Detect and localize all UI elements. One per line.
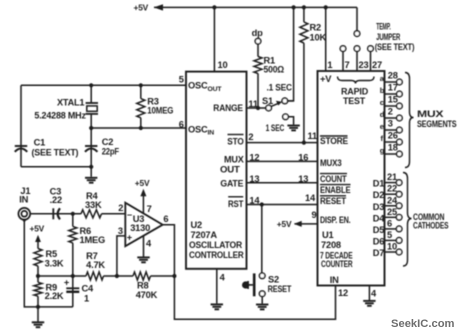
svg-text:SEGMENTS: SEGMENTS	[417, 119, 457, 129]
node dot R8/output	[172, 274, 176, 278]
svg-text:MUX3: MUX3	[320, 158, 342, 168]
svg-text:3: 3	[118, 226, 123, 236]
svg-text:21: 21	[387, 172, 397, 182]
wire jumper pin 27 lead	[370, 51, 372, 71]
wire op-amp pin3 jog	[117, 236, 125, 276]
wire U2 pin 10 drop	[213, 7, 215, 71]
node dot S2 on RST	[260, 202, 264, 206]
svg-text:1MEG: 1MEG	[80, 235, 106, 245]
capacitor C4	[66, 288, 79, 292]
IC U1 7208 box	[318, 71, 385, 286]
wire R5 to R9 junction	[37, 266, 39, 282]
wire R2 bottom lead to STO net	[303, 43, 305, 143]
common cathode pins D1-D7	[385, 183, 397, 252]
wire dp to R1	[257, 44, 259, 56]
wire .1SEC feed drop	[288, 7, 294, 101]
ground below R9	[32, 322, 44, 327]
svg-text:COUNT: COUNT	[320, 174, 347, 184]
wire +5V to DISP EN pin 9	[295, 223, 318, 225]
wire crystal bottom lead	[90, 114, 92, 128]
node dot .1SEC drop on rail	[292, 5, 296, 9]
svg-text:+V: +V	[320, 74, 332, 84]
svg-text:9: 9	[312, 210, 317, 220]
wire temp jumper drop	[356, 7, 358, 30]
wire GATE to COUNT ENABLE	[247, 182, 318, 184]
wire U2 pin 4 ground lead	[216, 269, 218, 304]
svg-text:S1: S1	[262, 96, 273, 106]
svg-text:SeekIC.com: SeekIC.com	[391, 318, 455, 330]
svg-text:RESET: RESET	[320, 196, 346, 206]
svg-text:7: 7	[345, 60, 350, 70]
resistor R6	[69, 226, 77, 243]
wire crystal top lead	[90, 85, 92, 102]
node dot R3 bottom	[139, 126, 143, 130]
svg-text:RANGE: RANGE	[213, 103, 243, 113]
svg-text:TEMP.: TEMP.	[376, 22, 391, 32]
wire op-amp pin4 ground lead	[143, 236, 145, 257]
svg-text:U2: U2	[191, 220, 203, 230]
op-amp U3	[125, 203, 162, 247]
svg-text:14: 14	[305, 193, 316, 203]
node dot R3 top	[139, 83, 143, 87]
svg-text:IN: IN	[19, 194, 28, 204]
svg-text:10: 10	[218, 60, 228, 70]
wire jumper pin 7 lead	[342, 51, 344, 71]
svg-text:D5: D5	[373, 225, 385, 235]
crystal XTAL1	[86, 103, 98, 114]
svg-text:e: e	[380, 122, 384, 131]
svg-text:2.2K: 2.2K	[45, 291, 64, 301]
node dot crystal bottom	[89, 126, 93, 130]
svg-text:+5V: +5V	[30, 223, 45, 233]
svg-text:5: 5	[179, 75, 184, 85]
brace mux segments	[405, 73, 414, 168]
capacitor C3	[53, 208, 60, 219]
svg-text:10MEG: 10MEG	[147, 106, 173, 116]
svg-text:+5V: +5V	[277, 219, 292, 229]
svg-text:C1: C1	[34, 138, 46, 148]
svg-text:12: 12	[249, 152, 259, 162]
svg-text:5.24288 MHz: 5.24288 MHz	[34, 111, 86, 121]
svg-text:(SEE TEXT): (SEE TEXT)	[375, 42, 415, 52]
svg-text:3.3K: 3.3K	[45, 258, 64, 268]
svg-text:STO: STO	[227, 137, 243, 147]
svg-text:MUX: MUX	[417, 109, 445, 119]
brace rapid test	[338, 77, 375, 84]
svg-text:XTAL1: XTAL1	[57, 98, 84, 108]
svg-text:d: d	[380, 110, 385, 119]
node dot crystal top	[89, 83, 93, 87]
ground below C2	[85, 178, 97, 183]
svg-text:JUMPER: JUMPER	[376, 32, 400, 42]
svg-text:28: 28	[388, 71, 398, 81]
svg-text:27: 27	[372, 60, 382, 70]
svg-text:CATHODES: CATHODES	[413, 221, 448, 231]
svg-text:(SEE TEXT): (SEE TEXT)	[32, 148, 79, 158]
node dot U2 pin10 on rail	[212, 5, 216, 9]
svg-text:dp: dp	[252, 28, 263, 38]
wire J1 shell ground run	[24, 220, 73, 307]
resistor R4	[81, 210, 102, 218]
wire R3 bottom lead	[140, 118, 142, 128]
wire R3 top lead	[140, 85, 142, 98]
svg-text:23: 23	[359, 60, 369, 70]
svg-text:6: 6	[179, 119, 184, 129]
node dot R2 on STO	[302, 141, 306, 145]
node dot C3/R4/R6 node A	[71, 212, 75, 216]
svg-text:4.7K: 4.7K	[86, 260, 105, 270]
wire ground stub below R9	[37, 307, 39, 322]
wire U1 pin 4 ground lead	[368, 286, 370, 301]
wire +5V top rail	[154, 6, 357, 8]
svg-text:22: 22	[387, 184, 397, 194]
svg-text:33K: 33K	[85, 200, 102, 210]
resistor R3	[137, 99, 145, 118]
wire R7 to R8 with pin3 node	[104, 275, 134, 277]
node dot U1 pin1 on rail	[324, 5, 328, 9]
svg-text:D7: D7	[373, 248, 385, 258]
svg-text:.22: .22	[50, 195, 62, 205]
resistor R1	[254, 57, 262, 74]
wire bottom of crystal section	[21, 166, 91, 168]
resistor R7	[86, 272, 104, 280]
svg-text:D4: D4	[373, 213, 386, 223]
pushbutton S2	[259, 273, 265, 279]
svg-text:b: b	[380, 86, 385, 95]
svg-text:D3: D3	[373, 202, 385, 212]
wire R9 bottom lead	[37, 296, 39, 307]
wire OSC IN net	[91, 127, 186, 129]
svg-text:R2: R2	[310, 22, 322, 32]
svg-text:12: 12	[338, 288, 348, 298]
brace common cathodes	[403, 173, 412, 267]
switch S1	[266, 105, 272, 111]
wire C2 top lead	[90, 128, 92, 167]
svg-text:6: 6	[163, 214, 168, 224]
wire +5V arrow to R5	[37, 241, 39, 249]
IC U2 7207A box	[186, 72, 247, 269]
svg-text:11: 11	[308, 131, 317, 141]
svg-text:7: 7	[147, 204, 152, 214]
svg-text:–: –	[127, 209, 132, 219]
wire U1 pin 1 drop	[325, 7, 327, 71]
svg-text:7208: 7208	[321, 240, 341, 250]
svg-text:18: 18	[388, 143, 398, 153]
svg-text:C2: C2	[102, 137, 114, 147]
svg-text:OSCILLATOR: OSCILLATOR	[189, 240, 242, 250]
svg-text:IN: IN	[330, 275, 339, 285]
svg-text:5: 5	[387, 230, 392, 240]
svg-text:24: 24	[387, 195, 398, 205]
ground below S2	[256, 305, 268, 310]
svg-text:16: 16	[298, 152, 308, 162]
wire S1 1SEC contact to ground	[288, 117, 293, 125]
svg-text:10: 10	[387, 242, 397, 252]
wire jumper pin 23 lead	[356, 51, 358, 71]
ground below U2 pin 4	[211, 304, 223, 309]
wire R8 to output node	[151, 275, 175, 277]
svg-text:CONTROLLER: CONTROLLER	[189, 250, 244, 260]
wire S2 to ground	[261, 297, 263, 304]
svg-text:OUT: OUT	[220, 165, 240, 175]
resistor R5	[34, 249, 42, 267]
svg-text:1: 1	[84, 293, 89, 303]
wire op-amp output	[163, 225, 336, 320]
svg-text:+: +	[64, 278, 70, 288]
capacitor C1	[15, 146, 27, 152]
svg-text:D6: D6	[373, 236, 385, 246]
ground at 1 SEC	[287, 126, 299, 131]
svg-text:D2: D2	[373, 190, 385, 200]
svg-text:DISP. EN.: DISP. EN.	[320, 215, 351, 225]
node dot R5/R9 junction	[36, 274, 40, 278]
svg-text:13: 13	[249, 174, 259, 184]
svg-text:17: 17	[388, 83, 398, 93]
svg-text:6: 6	[387, 218, 392, 228]
svg-text:RESET: RESET	[268, 284, 292, 294]
resistor R2	[300, 22, 308, 43]
svg-text:500Ω: 500Ω	[264, 64, 285, 74]
wire ground stub below C2	[90, 167, 92, 177]
svg-text:3130: 3130	[130, 223, 150, 233]
svg-text:7207A: 7207A	[191, 230, 218, 240]
mux segment pins a-g	[385, 82, 397, 154]
svg-text:+5V: +5V	[135, 178, 150, 188]
connector J1	[18, 208, 30, 220]
svg-text:1: 1	[327, 60, 332, 70]
svg-text:25: 25	[387, 207, 397, 217]
wire OSC OUT net top	[21, 84, 186, 86]
svg-text:10K: 10K	[310, 32, 327, 42]
svg-text:g: g	[380, 146, 385, 155]
node dot R6/C4 on bias net	[71, 274, 75, 278]
wire bias net horizontal	[38, 275, 86, 277]
resistor R8	[133, 272, 151, 280]
wire J1 to C3	[30, 213, 81, 215]
node dot C2 bottom	[89, 165, 93, 169]
svg-text:1 SEC: 1 SEC	[266, 123, 285, 133]
svg-text:COUNTER: COUNTER	[321, 259, 353, 269]
node dot R2 on rail	[302, 5, 306, 9]
svg-text:2: 2	[248, 132, 253, 142]
svg-text:470K: 470K	[136, 290, 158, 300]
svg-text:c: c	[380, 98, 384, 107]
wire left vertical C1 top lead	[20, 85, 22, 167]
svg-text:MUX: MUX	[224, 154, 245, 164]
svg-text:GATE: GATE	[220, 179, 243, 189]
svg-text:RST: RST	[228, 199, 244, 209]
wire C4 top lead	[72, 276, 74, 307]
svg-text:U1: U1	[322, 230, 334, 240]
wire RST to RESET	[247, 204, 318, 206]
svg-text:14: 14	[249, 196, 260, 206]
svg-text:ENABLE: ENABLE	[320, 185, 351, 195]
svg-text:+5V: +5V	[134, 3, 149, 13]
wire op-amp pin7 supply	[142, 195, 144, 213]
capacitor C2	[85, 146, 97, 152]
svg-text:D1: D1	[373, 179, 385, 189]
svg-text:22pF: 22pF	[102, 147, 120, 157]
wire RANGE pin 11 to S1 pole	[247, 107, 266, 109]
svg-text:2: 2	[388, 107, 393, 117]
svg-text:.1 SEC: .1 SEC	[267, 82, 293, 92]
wire node A to R6	[72, 214, 74, 227]
wire R2 top lead	[303, 7, 305, 22]
svg-text:+: +	[127, 233, 133, 243]
wire R1 to RANGE net	[257, 74, 259, 109]
svg-text:3: 3	[388, 119, 393, 129]
wire R6 bottom lead	[72, 243, 74, 276]
wire S1 .1SEC contact stub	[288, 100, 294, 102]
node dot op-amp pin3	[115, 274, 119, 278]
svg-text:S2: S2	[268, 274, 279, 284]
wire STO to STORE	[247, 142, 318, 144]
ground below U1 pin 4	[363, 301, 375, 306]
wire MUX OUT to MUX3	[247, 160, 318, 162]
resistor R9	[34, 282, 42, 296]
svg-text:13: 13	[298, 174, 308, 184]
svg-text:2: 2	[118, 203, 123, 213]
svg-text:TEST: TEST	[343, 96, 365, 106]
svg-text:C4: C4	[82, 283, 95, 293]
wire S2 drop	[261, 205, 263, 274]
svg-text:STORE: STORE	[320, 136, 348, 146]
svg-text:11: 11	[248, 99, 257, 109]
node dot R1 on RANGE	[256, 106, 260, 110]
svg-text:15: 15	[388, 95, 398, 105]
temp jumper circles	[354, 31, 360, 37]
ground below op-amp pin 4	[137, 257, 149, 262]
svg-text:26: 26	[388, 131, 398, 141]
wire R4 to op-amp pin 2	[102, 213, 126, 215]
